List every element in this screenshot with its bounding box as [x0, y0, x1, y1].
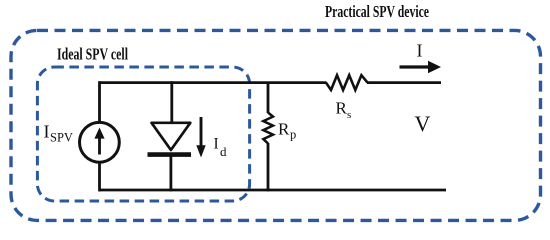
svg-text:Practical SPV device: Practical SPV device: [325, 2, 429, 21]
current I arrow (rightward): [400, 65, 431, 68]
wire: top rail after Rs: [367, 81, 441, 84]
practical SPV device boundary (outer dashed box): [11, 30, 541, 220]
svg-text:I: I: [214, 136, 219, 153]
svg-text:R: R: [278, 120, 290, 139]
wire: top rail from current source branch to Rs: [99, 81, 327, 84]
svg-text:SPV: SPV: [50, 131, 73, 145]
wire: diode branch bottom: [169, 155, 172, 192]
svg-text:V: V: [415, 111, 431, 136]
diode D (triangle + cathode bar): [152, 123, 191, 150]
current source ISPV (circle with up arrow): [80, 122, 120, 162]
svg-text:R: R: [336, 99, 348, 118]
wire: left branch bottom (current source to bottom rail): [98, 161, 101, 191]
wire: left branch top (rail to current source): [98, 81, 101, 123]
svg-text:s: s: [347, 109, 351, 121]
svg-text:p: p: [290, 128, 296, 142]
resistor Rs (horizontal zigzag): [326, 75, 368, 90]
wire: Rp branch top: [267, 82, 270, 113]
current Id arrow (downward): [200, 117, 203, 147]
svg-text:Ideal SPV cell: Ideal SPV cell: [57, 45, 128, 64]
svg-text:d: d: [220, 144, 227, 159]
svg-text:I: I: [44, 122, 50, 142]
wire: bottom rail: [99, 189, 446, 192]
wire: Rp branch bottom: [267, 143, 270, 191]
ideal SPV cell boundary (inner dashed box): [37, 67, 249, 201]
svg-text:I: I: [417, 41, 423, 61]
wire: diode branch top: [170, 81, 173, 123]
resistor Rp (vertical zigzag): [263, 113, 273, 144]
